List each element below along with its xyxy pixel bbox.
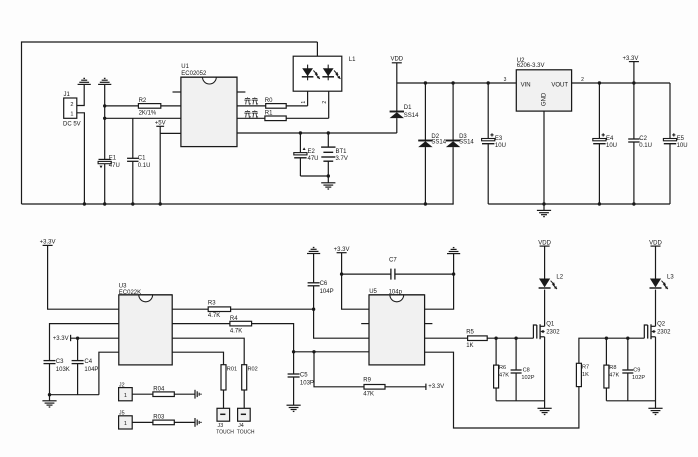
wire +5V outer loop (left and top) [22,42,318,204]
label R9 [363,378,371,384]
wire U1 BAT net [237,132,397,134]
label 1K (R5) [466,343,473,349]
svg-text:J5: J5 [119,411,125,417]
label D1 [404,105,412,111]
svg-text:4.7K: 4.7K [208,313,220,319]
label R5 [466,329,474,335]
label SS14 (D2) [431,139,446,145]
ground right of R04 [195,390,201,399]
junction R8 top [605,337,608,340]
svg-text:E2: E2 [308,149,316,155]
label C7 [389,257,397,263]
power +3.3V (U5) [334,247,350,253]
label DC 5V [63,122,81,128]
svg-text:4.7K: 4.7K [230,329,242,335]
label SS14 (D3) [459,139,474,145]
ground under Q1 [538,408,552,414]
svg-text:+3.3V: +3.3V [40,240,56,246]
svg-text:C2: C2 [639,136,647,142]
junction C1 on rail [131,202,134,205]
LED block L1 box [293,56,342,91]
resistor R0 [266,104,287,109]
svg-text:3: 3 [504,77,507,83]
svg-text:EC022K: EC022K [119,290,141,296]
label GND (rotated) [542,92,548,106]
svg-text:3.7V: 3.7V [336,156,348,162]
power VDD (L2) [538,240,551,278]
label Q2 [657,321,666,327]
LED L2 [539,279,557,290]
wire U3 pin2R to R4 [172,323,230,325]
label 3.7V [336,156,348,162]
label 0.1U (C2) [639,143,652,149]
wire +3.3V tap to U3 pin3 [71,337,119,339]
label TOUCH (J3) [216,429,234,435]
svg-text:U5: U5 [369,289,377,295]
capacitor C2 [628,83,639,204]
label E1 [109,156,117,162]
label R03 [153,415,165,421]
svg-text:1: 1 [70,111,73,117]
wire +5V bottom rail [22,203,454,205]
resistor R2 [138,104,160,109]
battery BT1 [321,133,335,176]
label R7 [582,365,589,371]
label R1 [265,111,273,117]
power VDD (L3) [649,240,662,278]
wire R8/C9 bottoms [606,400,655,402]
U5 right stub pin [425,323,433,325]
svg-text:47K: 47K [499,373,509,379]
label E4 [606,136,614,142]
capacitor C8 [511,338,522,401]
svg-text:R9: R9 [363,378,371,384]
wire R02 to J4 [243,390,245,408]
label L2 [556,275,563,281]
label 6206-3.3V [517,63,545,69]
junction C7 right [452,272,455,275]
resistor R1 [265,116,286,121]
svg-text:R0: R0 [265,98,273,104]
label R8 [609,365,616,371]
U5 left stub pin [361,323,369,325]
svg-text:+3.3V: +3.3V [334,247,350,253]
label L1 [349,57,356,63]
label R02 [248,367,258,373]
label VIN [521,83,531,89]
wire U3 pin1R to R3 [172,308,208,310]
label 1K (R7) [582,372,589,378]
wire U3 pin3R to R02 [172,338,244,365]
label 10U (E5) [677,143,688,149]
label L3 [667,275,674,281]
junction R6 top [494,337,497,340]
resistor R5 [468,336,488,341]
label 47K (R6) [499,373,509,379]
U2 pin2 number [581,77,584,83]
junction D2 bottom on rail [424,202,427,205]
label J5 [119,411,125,417]
svg-text:C6: C6 [320,281,328,287]
op-amp U3 body [119,295,172,365]
label 104P (C6) [320,289,334,295]
junction C9 top [626,337,629,340]
label J4 [238,423,244,429]
svg-text:R3: R3 [208,300,216,306]
svg-text:R01: R01 [227,367,237,373]
wire C7 right to U5 pin1R [425,254,454,310]
svg-text:C7: C7 [389,257,397,263]
wire R3 to C6 node [231,308,314,310]
svg-text:2K/1%: 2K/1% [139,111,157,117]
label R4 [230,316,238,322]
junction BT1 on BAT [327,131,330,134]
junction E4 top [598,81,601,84]
L1 pin 2 lead [322,91,329,118]
ground above C6 [307,248,320,254]
wire Q1 source to ground [544,337,546,409]
label R04 [153,386,165,392]
wire R04 to ground [174,393,195,395]
label 2302 (Q1) [546,330,560,336]
svg-text:102P: 102P [521,375,534,381]
power tap +3.3V (U3 pin3) [53,335,71,342]
LED L1b [322,65,340,81]
svg-text:104P: 104P [84,367,98,373]
ground right of R03 [195,418,201,427]
svg-text:+5V: +5V [155,121,166,127]
label 47K (R8) [609,373,619,379]
svg-text:J1: J1 [64,92,71,98]
wire R6/C8 bottoms [496,400,544,402]
resistor R3 [208,307,230,312]
ground under Q2 [648,408,662,414]
svg-text:104P: 104P [320,289,334,295]
label 102P (C9) [632,375,645,381]
ground under BT1 [321,183,335,189]
label C6 [320,281,328,287]
svg-text:R2: R2 [139,98,147,104]
capacitor E1 [98,159,111,204]
wire R5 to Q1 gate [487,337,533,339]
svg-text:R7: R7 [582,365,589,371]
label VOUT [551,83,568,89]
label C3 [56,359,64,365]
svg-text:R1: R1 [265,111,273,117]
svg-text:J3: J3 [218,423,224,429]
label E3 [495,136,503,142]
svg-text:104p: 104p [389,289,403,295]
resistor R04 [153,392,174,397]
label J1 [64,92,71,98]
svg-text:SS14: SS14 [459,139,474,145]
LED L3 [650,279,668,290]
label 充满 (full) [244,110,258,117]
svg-text:VIN: VIN [521,83,531,89]
svg-text:2302: 2302 [546,330,560,336]
diode D1 [390,83,404,133]
power +3.3V (U3) [40,240,56,246]
svg-text:1K: 1K [466,343,473,349]
wire J2 to R04 [132,393,153,395]
label 充电 (charge) [244,97,258,104]
ground under C5 [287,405,301,411]
wire Q2 drain to L3 [655,290,657,327]
power +5V [155,121,166,127]
svg-text:E3: E3 [495,136,503,142]
svg-text:2: 2 [70,102,73,108]
svg-text:C8: C8 [523,367,530,373]
L1 pin 1 lead [301,91,308,106]
svg-text:10U: 10U [677,143,688,149]
label 0.1U [138,163,151,169]
svg-text:TOUCH: TOUCH [216,429,234,435]
svg-text:47U: 47U [109,163,120,169]
power VDD (top) [390,56,403,83]
label 47U [109,163,120,169]
svg-text:0.1U: 0.1U [138,163,151,169]
svg-text:47K: 47K [363,392,374,398]
svg-text:L2: L2 [556,275,563,281]
connector J3 (touch pad) [217,408,230,421]
label U2 [517,58,525,64]
capacitor C5 [288,352,300,405]
junction C6/R3 node [312,308,315,311]
label 10U (E3) [495,143,506,149]
label C8 [523,367,530,373]
wire U1 to R0 [237,105,266,107]
wire U1 to R1 [237,117,265,119]
ground under U2 [537,204,551,217]
svg-text:Q2: Q2 [657,321,666,327]
wire R0 to L1 pin1 [286,105,307,107]
svg-text:E5: E5 [677,136,685,142]
label EC02052 [181,71,207,77]
svg-text:C5: C5 [300,372,308,378]
junction C3 ground [48,393,51,396]
resistor R8 [604,338,609,401]
op-amp U5 body [369,295,425,365]
transistor Q1 [533,324,544,339]
junction BT1 bottom [327,174,330,177]
svg-text:VOUT: VOUT [551,83,568,89]
wire U3 pin2 to C3 [50,324,119,361]
wire GND to U1 pin2 [105,117,181,119]
svg-text:C4: C4 [84,359,92,365]
label D2 [431,134,439,140]
capacitor C3 [44,361,56,395]
U2 pin3 number [504,77,507,83]
svg-text:U3: U3 [119,284,127,290]
svg-text:47U: 47U [308,156,319,162]
label BT1 [336,149,348,155]
svg-text:SS14: SS14 [404,113,419,119]
junction C5 node [292,350,295,353]
transistor Q2 [644,324,655,339]
svg-text:R02: R02 [248,367,258,373]
wire E2/BT1 bottoms [300,176,328,183]
connector J4 (touch pad) [238,408,251,421]
svg-text:R8: R8 [609,365,616,371]
wire C5 node to U5 pin4 [294,351,369,353]
svg-text:103K: 103K [56,367,70,373]
label E5 [677,136,685,142]
wire R9 branch [314,352,364,387]
wire VDD horizontal [397,82,517,84]
junction C2 bottom [632,202,635,205]
LED L1a [302,65,320,81]
label R6 [499,365,506,371]
label C2 [639,136,647,142]
resistor R6 [494,338,499,401]
svg-text:1: 1 [301,101,307,104]
wire R03 to ground [174,421,195,423]
wire R9 to +3.3V tap [385,386,426,388]
svg-text:C9: C9 [633,367,640,373]
label J3 [218,423,224,429]
svg-text:L1: L1 [349,57,356,63]
label Q1 [546,321,555,327]
svg-text:L3: L3 [667,275,674,281]
wire C3/C4 ground bus [50,394,99,396]
label 103P (C5) [300,380,314,386]
wire L1 top lead [316,42,318,56]
svg-text:103P: 103P [300,380,314,386]
wire +5V stem [160,126,181,204]
junction C7 left [340,272,343,275]
label 104p (C7) [389,289,403,295]
svg-text:1K: 1K [582,372,589,378]
svg-text:C1: C1 [138,155,146,161]
svg-text:J2: J2 [119,382,125,388]
label J2 [119,382,125,388]
wire U5 pin3R to R5 [425,337,468,339]
svg-text:R6: R6 [499,365,506,371]
label EC022K [119,290,141,296]
power tap +3.3V (R9) [426,384,444,390]
label E2 [308,149,316,155]
label D3 [459,134,467,140]
capacitor C4 [72,338,84,395]
label U5 [369,289,377,295]
svg-text:+3.3V: +3.3V [53,336,69,342]
resistor R01 [221,365,226,390]
connector J2 [119,388,133,401]
wire U5 pin4R to R7 [425,352,579,428]
wire U3 pin4 to ground net [99,352,119,395]
connector J5 [119,416,133,429]
svg-text:R4: R4 [230,316,238,322]
label R3 [208,300,216,306]
capacitor C9 [622,338,633,401]
label 102P (C8) [521,375,534,381]
power +3.3V (top) [622,56,638,83]
capacitor C1 [127,118,138,204]
capacitor C6 [308,254,320,310]
svg-text:10U: 10U [495,143,506,149]
svg-text:E4: E4 [606,136,614,142]
svg-text:0.1U: 0.1U [639,143,652,149]
svg-text:D1: D1 [404,105,412,111]
wire J5 to R03 [132,421,153,423]
svg-text:J4: J4 [238,423,244,429]
U1 left stub pin [173,91,181,93]
junction D2 top [424,81,427,84]
label 104P (C4) [84,367,98,373]
connector J1 [64,98,77,118]
capacitor C7 [342,269,454,280]
wire R7 to Q2 gate [579,338,644,363]
label U3 [119,284,127,290]
wire GND bottom rail [488,203,670,205]
svg-text:102P: 102P [632,375,645,381]
junction J1.1 on rail [83,202,86,205]
wire U2 GND pin [543,111,545,204]
label R01 [227,367,237,373]
label R2 [139,98,147,104]
label SS14 (D1) [404,113,419,119]
label 4.7K (R3) [208,313,220,319]
junction D3 top [451,81,454,84]
U1 right stub pin [237,91,245,93]
svg-text:+3.3V: +3.3V [428,384,444,390]
label 10U (E4) [606,143,617,149]
resistor R9 [364,385,385,390]
svg-text:EC02052: EC02052 [181,71,207,77]
svg-text:C3: C3 [56,359,64,365]
label C5 [300,372,308,378]
svg-text:U1: U1 [181,64,189,70]
junction E3 top [487,81,490,84]
junction C8 top [514,337,517,340]
resistor R4 [230,321,252,326]
svg-text:2: 2 [322,101,328,104]
svg-text:GND: GND [542,92,548,106]
junction C4 top [76,337,79,340]
regulator U2 body [516,70,571,111]
capacitor E4 [593,83,606,204]
label R0 [265,98,273,104]
svg-text:E1: E1 [109,156,117,162]
junction E1 on rail [103,202,106,205]
wire J1 pin2 to ground [77,84,84,105]
junction C2 top [632,81,635,84]
svg-text:TOUCH: TOUCH [237,429,255,435]
label 47U (E2) [308,156,319,162]
junction E4 bottom [598,202,601,205]
wire C6 node to U5 pin3 [314,309,369,338]
capacitor E5 [663,83,676,204]
label 4.7K (R4) [230,329,242,335]
svg-text:1: 1 [124,393,127,399]
label U1 [181,64,189,70]
label TOUCH (J4) [237,429,255,435]
ground (top, GND stem) [98,78,111,159]
junction GND/R2 [103,104,106,107]
wire R1 to L1 pin2 [286,117,329,119]
wire +3.3V to U3 pin1 [48,245,119,309]
svg-text:R5: R5 [466,329,474,335]
diode D3 [446,83,460,204]
ground under C3 [42,395,56,407]
svg-text:SS14: SS14 [431,139,446,145]
label C9 [633,367,640,373]
wire R4 to C5 node [252,324,294,352]
label 2302 (Q2) [657,330,671,336]
resistor R03 [153,420,174,425]
junction GND/U1 pin2 wire [103,117,106,120]
wire Q2 source to ground [655,337,657,409]
